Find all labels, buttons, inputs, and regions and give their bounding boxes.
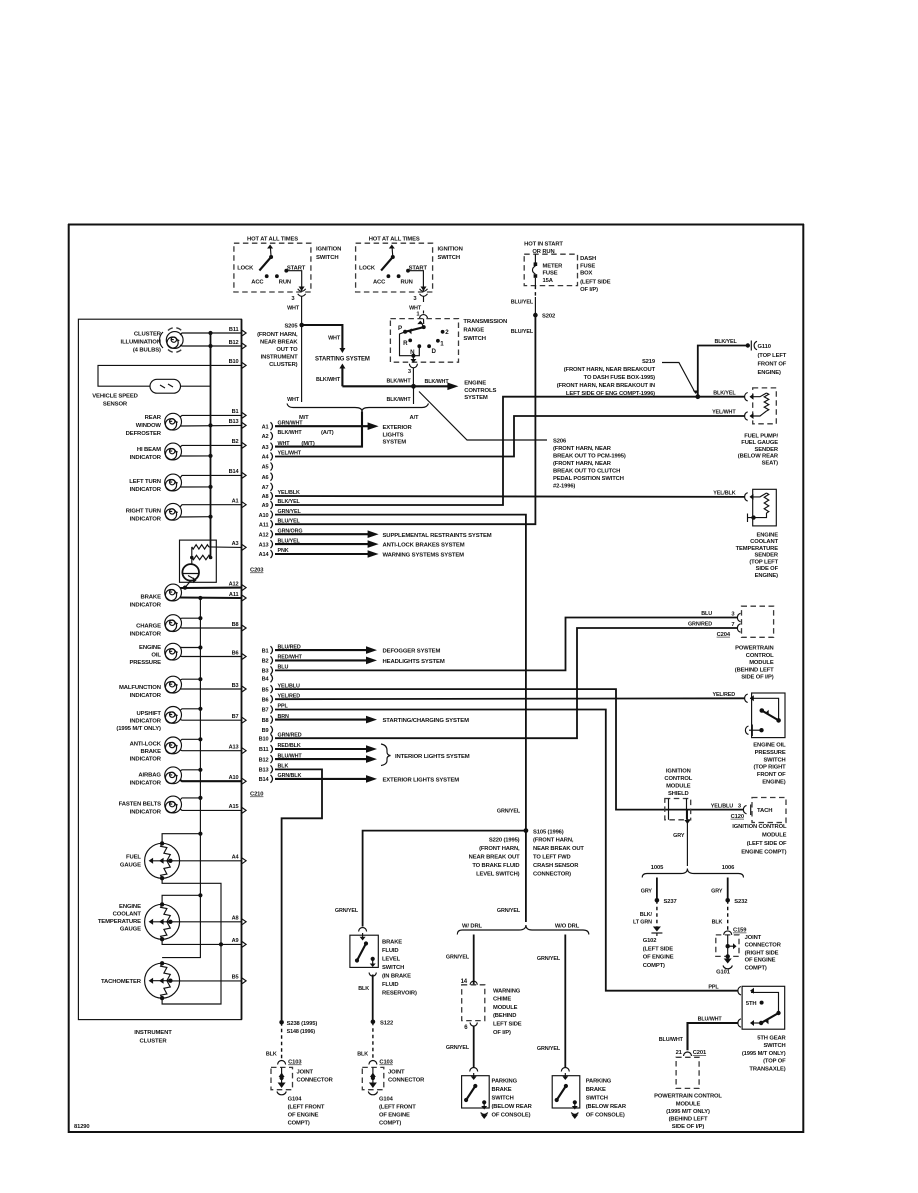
svg-text:WARNING: WARNING — [493, 988, 521, 994]
svg-text:YEL/WHT: YEL/WHT — [712, 410, 736, 416]
svg-text:81290: 81290 — [74, 1124, 90, 1130]
interior lights system reference brace — [381, 744, 470, 766]
svg-text:TO DASH FUSE BOX-1995): TO DASH FUSE BOX-1995) — [584, 375, 656, 381]
svg-text:(RIGHT SIDE: (RIGHT SIDE — [745, 950, 779, 956]
svg-text:(BEHIND LEFT: (BEHIND LEFT — [669, 1117, 708, 1123]
svg-text:COMPT): COMPT) — [643, 963, 665, 969]
svg-text:BLU: BLU — [278, 665, 289, 671]
svg-text:A10: A10 — [259, 513, 269, 519]
svg-text:G101: G101 — [716, 970, 731, 976]
svg-text:GRN/YEL: GRN/YEL — [446, 955, 470, 961]
svg-text:B11: B11 — [229, 327, 239, 333]
svg-text:S238 (1995): S238 (1995) — [287, 1021, 318, 1027]
svg-text:YEL/BLK: YEL/BLK — [713, 491, 735, 497]
svg-text:TEMPERATURE: TEMPERATURE — [736, 546, 779, 552]
svg-text:STARTING/CHARGING SYSTEM: STARTING/CHARGING SYSTEM — [383, 718, 470, 724]
svg-text:B3: B3 — [262, 669, 269, 675]
svg-text:EXTERIOR: EXTERIOR — [383, 425, 413, 431]
ground G102 — [643, 927, 674, 970]
svg-text:(TOP LEFT: (TOP LEFT — [758, 353, 787, 359]
svg-text:BLU/YEL: BLU/YEL — [511, 300, 534, 306]
svg-text:S232: S232 — [734, 899, 747, 905]
wire fuel gauge bottom loop — [162, 879, 223, 947]
svg-text:SIDE OF: SIDE OF — [756, 566, 779, 572]
svg-text:A14: A14 — [259, 552, 270, 558]
svg-text:BLU/RED: BLU/RED — [278, 644, 301, 650]
svg-text:ENGINE): ENGINE) — [762, 780, 786, 786]
wire B14 GRN/BLK to exterior lights system — [275, 773, 459, 783]
svg-text:C159: C159 — [733, 928, 747, 934]
wire A3 WHT (M/T) — [278, 441, 315, 447]
svg-text:ENGINE OIL: ENGINE OIL — [753, 743, 786, 749]
svg-text:(LEFT SIDE OF: (LEFT SIDE OF — [747, 841, 787, 847]
airbag indicator — [130, 767, 182, 787]
svg-text:SUPPLEMENTAL RESTRAINTS SYSTEM: SUPPLEMENTAL RESTRAINTS SYSTEM — [383, 533, 492, 539]
wire malfunction indicator to bus — [180, 677, 202, 681]
svg-text:PRESSURE: PRESSURE — [755, 750, 786, 756]
svg-text:21: 21 — [676, 1050, 683, 1056]
svg-text:INDICATOR: INDICATOR — [130, 781, 162, 787]
svg-text:C201: C201 — [693, 1050, 707, 1056]
svg-text:HOT AT ALL TIMES: HOT AT ALL TIMES — [369, 237, 420, 243]
svg-text:BLU/WHT: BLU/WHT — [698, 1017, 723, 1023]
svg-text:GRN/BLK: GRN/BLK — [278, 773, 302, 779]
svg-text:INDICATOR: INDICATOR — [130, 516, 162, 522]
svg-text:CONNECTOR: CONNECTOR — [388, 1077, 425, 1083]
svg-text:A11: A11 — [259, 522, 269, 528]
svg-text:(M/T): (M/T) — [301, 441, 314, 447]
svg-text:HI BEAM: HI BEAM — [137, 447, 161, 453]
node S220/S105 — [469, 828, 585, 878]
svg-text:GRY: GRY — [673, 833, 685, 839]
wire tachometer bottom loop — [162, 944, 221, 1004]
svg-text:JOINT: JOINT — [388, 1069, 405, 1075]
svg-text:BRAKE: BRAKE — [586, 1087, 606, 1093]
svg-text:B9: B9 — [262, 728, 269, 734]
svg-text:GRN/YEL: GRN/YEL — [446, 1045, 470, 1051]
svg-text:(1995 M/T ONLY): (1995 M/T ONLY) — [666, 1109, 710, 1115]
instrument voltage regulator — [180, 540, 217, 588]
svg-text:HOT AT ALL TIMES: HOT AT ALL TIMES — [247, 237, 298, 243]
wire fasten belts indicator to A15 — [180, 804, 246, 814]
svg-text:REAR: REAR — [145, 415, 162, 421]
svg-text:BLK/WHT: BLK/WHT — [316, 377, 341, 383]
svg-text:BLU/WHT: BLU/WHT — [278, 753, 303, 759]
svg-text:BREAK OUT TO PCM-1995): BREAK OUT TO PCM-1995) — [553, 454, 626, 460]
svg-text:CONTROL: CONTROL — [746, 653, 774, 659]
svg-text:(LEFT SIDE: (LEFT SIDE — [580, 279, 611, 285]
svg-text:BLK: BLK — [278, 764, 289, 770]
svg-text:(TOP LEFT: (TOP LEFT — [749, 560, 778, 566]
svg-text:WHT: WHT — [328, 336, 341, 342]
svg-text:FRONT OF: FRONT OF — [758, 362, 787, 368]
svg-text:MODULE: MODULE — [666, 784, 691, 790]
svg-text:(BEHIND: (BEHIND — [493, 1013, 516, 1019]
svg-text:RUN: RUN — [279, 280, 291, 286]
svg-text:COOLANT: COOLANT — [113, 912, 142, 918]
wire A12 GRN/ORG to supplemental restraints — [275, 528, 492, 538]
svg-text:CONTROL: CONTROL — [664, 776, 692, 782]
exterior lights system reference (A1) — [383, 425, 413, 446]
svg-text:OIL: OIL — [151, 653, 161, 659]
ignition control module shield — [665, 799, 691, 820]
svg-text:S206: S206 — [553, 439, 567, 445]
svg-text:BRAKE: BRAKE — [382, 939, 402, 945]
wire BLU/WHT 5th gear switch to C201 — [659, 1017, 738, 1051]
svg-text:BLK/YEL: BLK/YEL — [713, 390, 736, 396]
svg-text:B7: B7 — [232, 714, 239, 720]
svg-text:G104: G104 — [288, 1097, 303, 1103]
svg-text:15A: 15A — [543, 278, 554, 284]
svg-text:ENGINE: ENGINE — [119, 904, 141, 910]
svg-text:A15: A15 — [229, 804, 239, 810]
svg-text:OF ENGINE: OF ENGINE — [379, 1113, 410, 1119]
svg-text:A4: A4 — [232, 855, 240, 861]
wire airbag indicator to A10 — [180, 775, 246, 785]
wire WHT S205 down to M/T brace — [287, 325, 302, 403]
svg-text:FRONT OF: FRONT OF — [757, 772, 786, 778]
wire B13 BLK to joint connector G104 — [275, 764, 322, 1020]
svg-text:S220 (1995): S220 (1995) — [489, 838, 520, 844]
svg-text:TRANSMISSION: TRANSMISSION — [463, 319, 507, 325]
svg-text:RESERVOIR): RESERVOIR) — [382, 990, 417, 996]
svg-text:IGNITION CONTROL: IGNITION CONTROL — [732, 824, 787, 830]
svg-text:SYSTEM: SYSTEM — [383, 440, 407, 446]
wire BLK/WHT below junction to A/T brace — [386, 386, 413, 404]
svg-text:B3: B3 — [232, 683, 239, 689]
svg-text:SWITCH: SWITCH — [586, 1096, 608, 1102]
powertrain control module (1995 M/T only) — [654, 1057, 722, 1130]
svg-text:DEFOGGER SYSTEM: DEFOGGER SYSTEM — [383, 649, 441, 655]
svg-text:ACC: ACC — [251, 280, 264, 286]
svg-text:A12: A12 — [259, 532, 269, 538]
svg-text:(FRONT HARN, NEAR BREAKOUT: (FRONT HARN, NEAR BREAKOUT — [564, 367, 656, 373]
svg-text:5TH GEAR: 5TH GEAR — [757, 1035, 786, 1041]
svg-text:C120: C120 — [731, 814, 744, 820]
svg-text:GRY: GRY — [641, 888, 653, 894]
svg-text:FASTEN BELTS: FASTEN BELTS — [119, 802, 161, 808]
wire GRY shield to 1005/1006 brace — [673, 810, 690, 866]
label A11 BLU/YEL — [278, 518, 301, 524]
dash fuse box with meter fuse — [524, 241, 611, 293]
svg-text:SEAT): SEAT) — [762, 461, 779, 467]
svg-text:(BEHIND LEFT: (BEHIND LEFT — [735, 667, 774, 673]
instrument cluster caption — [134, 1030, 172, 1045]
svg-text:S237: S237 — [664, 899, 677, 905]
svg-text:B11: B11 — [259, 747, 269, 753]
svg-text:B5: B5 — [232, 975, 239, 981]
svg-text:G102: G102 — [643, 938, 657, 944]
svg-text:SHIELD: SHIELD — [668, 791, 689, 797]
svg-text:A13: A13 — [259, 542, 269, 548]
svg-text:OF CONSOLE): OF CONSOLE) — [586, 1113, 625, 1119]
instrument cluster box — [78, 319, 241, 1019]
svg-text:INDICATOR: INDICATOR — [130, 810, 162, 816]
svg-text:BLU/YEL: BLU/YEL — [278, 518, 301, 524]
svg-text:YEL/RED: YEL/RED — [712, 692, 735, 698]
svg-text:TACH: TACH — [757, 808, 772, 814]
svg-text:CLUSTER: CLUSTER — [134, 331, 162, 337]
wire BLK to joint connector C159 — [712, 900, 728, 931]
svg-text:B12: B12 — [229, 340, 239, 346]
svg-text:GRN/YEL: GRN/YEL — [497, 908, 521, 914]
svg-text:CHARGE: CHARGE — [136, 624, 161, 630]
svg-text:A9: A9 — [262, 503, 269, 509]
svg-text:BLK/YEL: BLK/YEL — [278, 499, 301, 505]
svg-text:INTERIOR LIGHTS SYSTEM: INTERIOR LIGHTS SYSTEM — [395, 754, 470, 760]
tachometer — [101, 961, 180, 1000]
wire engine oil pressure indicator to bus — [180, 645, 202, 649]
svg-text:FUEL: FUEL — [126, 855, 141, 861]
wire A12 row — [180, 581, 246, 591]
wire malfunction indicator to B3 — [180, 683, 246, 693]
svg-text:TRANSAXLE): TRANSAXLE) — [749, 1067, 785, 1073]
svg-text:SIDE OF I/P): SIDE OF I/P) — [741, 675, 774, 681]
node S202 — [511, 313, 555, 335]
svg-text:(FRONT HARN,: (FRONT HARN, — [479, 846, 520, 852]
svg-text:GRN/WHT: GRN/WHT — [278, 420, 304, 426]
wire A13 BLU/YEL to anti-lock brakes — [275, 538, 465, 548]
svg-text:BLK/WHT: BLK/WHT — [386, 379, 411, 385]
svg-text:1006: 1006 — [722, 865, 735, 871]
svg-text:GRN/ORG: GRN/ORG — [278, 528, 303, 534]
svg-text:ANTI-LOCK: ANTI-LOCK — [130, 742, 162, 748]
cluster illumination lamp (4 bulbs) — [121, 328, 184, 354]
svg-text:(LEFT FRONT: (LEFT FRONT — [288, 1105, 325, 1111]
svg-text:A2: A2 — [262, 434, 269, 440]
svg-text:A8: A8 — [262, 494, 269, 500]
svg-text:COMPT): COMPT) — [288, 1121, 310, 1127]
svg-text:TACHOMETER: TACHOMETER — [101, 979, 142, 985]
svg-text:A6: A6 — [262, 475, 269, 481]
svg-text:RED/BLK: RED/BLK — [278, 743, 301, 749]
svg-text:GRN/RED: GRN/RED — [278, 732, 302, 738]
wire hi beam to B2 — [180, 439, 246, 449]
wire BLU/YEL S202 down to A11 — [275, 315, 535, 524]
svg-text:(FRONT HARN,: (FRONT HARN, — [533, 838, 574, 844]
connector C159 — [724, 928, 748, 935]
svg-text:LEFT TURN: LEFT TURN — [129, 479, 161, 485]
svg-text:LOCK: LOCK — [359, 265, 376, 271]
wire GRN/YEL S105 down to DRL brace — [497, 831, 526, 922]
wire upshift indicator to B7 — [180, 714, 246, 724]
svg-text:PARKING: PARKING — [586, 1079, 612, 1085]
svg-text:B8: B8 — [262, 718, 269, 724]
svg-text:MODULE: MODULE — [762, 832, 787, 838]
wire GRN/YEL to warning chime module — [446, 935, 474, 985]
wire GRN/YEL S220 to brake fluid level switch — [335, 831, 526, 927]
wire A10 GRN/YEL down to S220/S105 — [275, 509, 526, 831]
svg-text:S219: S219 — [642, 359, 656, 365]
fuel pump / fuel gauge sender — [738, 388, 779, 467]
leader S219 — [557, 359, 699, 397]
engine oil pressure switch — [745, 693, 786, 786]
powertrain control module C204 — [717, 606, 775, 681]
wire B5 YEL/BLU to ignition control module — [275, 683, 743, 809]
svg-text:(FRONT HARN, NEAR: (FRONT HARN, NEAR — [553, 446, 612, 452]
svg-text:DASH: DASH — [580, 256, 596, 262]
svg-text:B10: B10 — [229, 359, 239, 365]
svg-text:WINDOW: WINDOW — [136, 423, 162, 429]
svg-text:B12: B12 — [259, 757, 269, 763]
svg-text:BOX: BOX — [580, 271, 592, 277]
svg-text:B6: B6 — [262, 697, 269, 703]
svg-text:INDICATOR: INDICATOR — [130, 757, 162, 763]
wire rear defroster to B13 — [180, 419, 246, 429]
svg-text:SWITCH: SWITCH — [463, 336, 486, 342]
svg-text:SWITCH: SWITCH — [382, 965, 404, 971]
svg-text:BLK: BLK — [712, 919, 723, 925]
svg-text:A12: A12 — [229, 581, 239, 587]
internal bus wire 2 (indicator feed) — [162, 598, 200, 958]
wire anti-lock brake indicator to bus — [180, 737, 202, 741]
svg-text:B8: B8 — [232, 622, 239, 628]
svg-text:FUSE: FUSE — [580, 263, 595, 269]
svg-text:(LEFT SIDE: (LEFT SIDE — [643, 946, 674, 952]
brace W/ DRL and W/O DRL — [457, 923, 589, 934]
svg-text:RED/WHT: RED/WHT — [278, 655, 303, 661]
svg-text:GRN/YEL: GRN/YEL — [537, 956, 561, 962]
wire A11 row — [180, 592, 246, 602]
wire BLK/YEL branch to G110 — [698, 339, 748, 397]
svg-text:MODULE: MODULE — [749, 660, 774, 666]
starting system reference — [315, 357, 370, 363]
svg-text:G104: G104 — [379, 1097, 394, 1103]
svg-text:PNK: PNK — [278, 548, 289, 554]
svg-text:ACC: ACC — [373, 280, 386, 286]
svg-text:SYSTEM: SYSTEM — [464, 395, 488, 401]
svg-text:POWERTRAIN CONTROL: POWERTRAIN CONTROL — [654, 1094, 722, 1100]
svg-text:DEFROSTER: DEFROSTER — [126, 431, 162, 437]
wire charge indicator to bus — [180, 616, 202, 620]
svg-text:EXTERIOR LIGHTS SYSTEM: EXTERIOR LIGHTS SYSTEM — [383, 778, 460, 784]
svg-text:PPL: PPL — [278, 704, 289, 710]
svg-text:VEHICLE SPEED: VEHICLE SPEED — [92, 394, 138, 400]
svg-text:GRN/RED: GRN/RED — [688, 622, 712, 628]
svg-text:COMPT): COMPT) — [379, 1121, 401, 1127]
svg-text:LEFT SIDE OF ENG COMPT-1996): LEFT SIDE OF ENG COMPT-1996) — [566, 391, 655, 397]
svg-text:A4: A4 — [262, 455, 270, 461]
svg-text:S205: S205 — [284, 323, 298, 329]
svg-text:C103: C103 — [288, 1060, 302, 1066]
svg-text:WHT: WHT — [409, 305, 422, 311]
wire BLU/YEL fuse to S202 — [511, 286, 536, 316]
brake fluid level switch — [350, 928, 417, 997]
svg-text:G110: G110 — [758, 344, 771, 350]
wire hi beam to bus — [180, 454, 213, 458]
rear window defroster indicator — [126, 413, 182, 437]
svg-text:JOINT: JOINT — [745, 935, 762, 941]
wire GRY to S232 — [711, 878, 728, 901]
svg-text:LEVEL SWITCH): LEVEL SWITCH) — [476, 872, 520, 878]
svg-text:HEADLIGHTS SYSTEM: HEADLIGHTS SYSTEM — [383, 659, 445, 665]
left turn indicator — [129, 474, 181, 493]
internal bus wire (lamps) — [210, 333, 212, 558]
svg-text:14: 14 — [461, 979, 468, 985]
connector C201 — [676, 1050, 707, 1056]
svg-text:GRN/YEL: GRN/YEL — [537, 1046, 561, 1052]
svg-text:YEL/RED: YEL/RED — [278, 693, 301, 699]
svg-text:7: 7 — [731, 622, 734, 628]
wire B11 RED/BLK interior lights — [275, 743, 377, 753]
svg-text:BLK/WHT: BLK/WHT — [386, 397, 411, 403]
connector C210 label — [250, 792, 263, 798]
svg-text:ANTI-LOCK BRAKES SYSTEM: ANTI-LOCK BRAKES SYSTEM — [383, 543, 465, 549]
svg-text:FUEL GAUGE: FUEL GAUGE — [741, 440, 778, 446]
svg-text:JOINT: JOINT — [297, 1069, 314, 1075]
svg-text:TO LEFT FWD: TO LEFT FWD — [533, 855, 571, 861]
svg-text:#2-1996): #2-1996) — [553, 484, 575, 490]
svg-text:C210: C210 — [250, 792, 263, 798]
svg-text:CONTROLS: CONTROLS — [464, 388, 496, 394]
wire BLK/LT GRN to G102 — [633, 900, 657, 926]
wire BLK S122 to joint connector — [357, 1022, 373, 1061]
wire fuel gauge top to bus — [162, 832, 202, 843]
svg-text:W/O DRL: W/O DRL — [555, 923, 580, 929]
svg-text:SENDER: SENDER — [755, 553, 779, 559]
brace M/T A/T — [287, 404, 429, 421]
svg-text:C103: C103 — [379, 1060, 393, 1066]
svg-text:LIGHTS: LIGHTS — [383, 432, 404, 438]
svg-text:INSTRUMENT: INSTRUMENT — [261, 355, 298, 361]
svg-text:(TOP OF: (TOP OF — [763, 1059, 786, 1065]
malfunction indicator — [119, 676, 181, 699]
wire rear defroster to B1 — [180, 409, 246, 419]
parking brake switch 2 — [552, 1068, 627, 1120]
svg-text:INDICATOR: INDICATOR — [130, 455, 162, 461]
svg-text:GRY: GRY — [711, 888, 723, 894]
fuel gauge — [120, 841, 180, 880]
svg-text:S202: S202 — [542, 314, 555, 320]
wire B6 YEL/RED to oil pressure switch — [275, 692, 748, 703]
svg-text:B13: B13 — [259, 768, 269, 774]
joint connector G104 (left, from B13) — [271, 1060, 334, 1127]
svg-text:BLU/YEL: BLU/YEL — [511, 329, 534, 335]
svg-text:B1: B1 — [262, 648, 269, 654]
wire IVR to A3 — [209, 541, 246, 551]
svg-text:A/T: A/T — [410, 415, 420, 421]
wire coolant gauge top to bus — [162, 893, 202, 904]
wire GRY to S237 — [641, 878, 657, 901]
wire fuel gauge to A4 — [170, 855, 246, 865]
ignition control module TACH — [711, 798, 787, 856]
svg-text:A8: A8 — [232, 916, 239, 922]
node S122 — [371, 1020, 393, 1027]
node S205 — [257, 297, 304, 369]
svg-text:(BELOW REAR: (BELOW REAR — [586, 1104, 627, 1110]
wire right turn to A1 — [180, 499, 246, 509]
wire coolant gauge to A8 — [170, 916, 246, 926]
wire upshift indicator to bus — [180, 707, 202, 711]
svg-text:(BELOW REAR: (BELOW REAR — [738, 454, 779, 460]
svg-text:MODULE: MODULE — [493, 1005, 518, 1011]
svg-text:OF ENGINE: OF ENGINE — [643, 955, 674, 961]
svg-text:D: D — [432, 348, 437, 355]
svg-text:P: P — [398, 325, 402, 332]
svg-text:BRN: BRN — [278, 714, 290, 720]
svg-text:YEL/BLK: YEL/BLK — [278, 490, 300, 496]
svg-text:(IN BRAKE: (IN BRAKE — [382, 973, 411, 979]
brace 1005 / 1006 — [642, 865, 743, 878]
wire airbag indicator to bus — [180, 768, 202, 772]
wire A/T M/T to A2 A3 — [275, 412, 362, 447]
svg-text:AIRBAG: AIRBAG — [138, 773, 161, 779]
wire charge indicator to B8 — [180, 622, 246, 632]
svg-text:C203: C203 — [250, 568, 264, 574]
svg-text:BLK: BLK — [357, 1051, 368, 1057]
svg-text:A10: A10 — [229, 775, 239, 781]
wire coolant gauge bottom to A9 — [162, 938, 246, 948]
